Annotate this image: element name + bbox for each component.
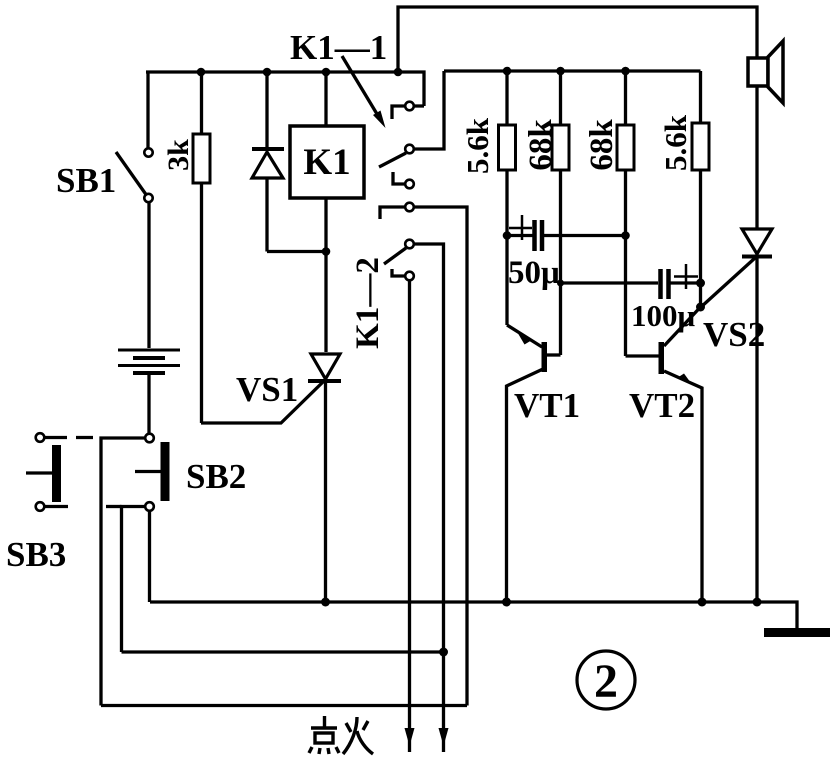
wire dashed SB3-SB2 bottom row — [44, 505, 122, 508]
wire SB1 to battery — [147, 202, 150, 348]
arrow ignition 1 — [405, 728, 415, 746]
wire c2 common — [414, 71, 444, 149]
svg-text:3k: 3k — [162, 139, 195, 171]
wire top supply run — [398, 7, 757, 72]
svg-text:K1: K1 — [303, 142, 350, 183]
svg-text:5.6k: 5.6k — [658, 114, 693, 171]
wire resistor rail y=71 — [444, 69, 701, 72]
node rail-diode — [263, 68, 272, 77]
svg-text:SB2: SB2 — [186, 457, 246, 496]
svg-text:SB3: SB3 — [6, 535, 66, 574]
emitter VT1 — [507, 325, 542, 347]
switch SB1 — [116, 148, 153, 202]
wire SB2 bottom to left drop — [122, 507, 146, 653]
contact c4 — [405, 203, 414, 212]
svg-text:K1—2: K1—2 — [350, 257, 386, 349]
capacitor C2 100u — [561, 264, 701, 299]
node R4-VT2 — [696, 303, 705, 312]
svg-text:VT2: VT2 — [629, 386, 695, 425]
svg-text:5.6k: 5.6k — [460, 117, 495, 174]
lever K1-1 — [379, 153, 406, 167]
relay contact K1-2 — [380, 203, 467, 752]
capacitor C1 50u — [507, 215, 626, 251]
base wire VT1 — [547, 353, 561, 356]
wire SB2 bottom to ground rail — [148, 511, 151, 602]
speaker BL — [748, 41, 783, 228]
thyristor VS2 — [701, 229, 772, 602]
hanzi huo — [346, 723, 351, 732]
resistor 3k — [193, 72, 210, 423]
node rail-R3 — [621, 67, 630, 76]
relay contact K1-1 — [379, 71, 444, 188]
node rail-R1 — [503, 67, 512, 76]
node rail-K1 — [322, 68, 331, 77]
wire c4 right — [414, 207, 467, 706]
svg-text:68k: 68k — [584, 119, 620, 171]
node y=652 — [439, 648, 448, 657]
pushbutton SB2 — [135, 434, 170, 511]
wire battery to SB2 — [147, 375, 150, 433]
contact c5 — [405, 240, 414, 249]
base bar VT2 — [659, 342, 665, 374]
ground — [764, 628, 830, 637]
hanzi dian — [323, 716, 326, 728]
arrow K1-1 pointer — [342, 56, 386, 128]
node rail-VT1 — [502, 598, 511, 607]
node rail-VS2 — [753, 598, 762, 607]
battery GB — [118, 350, 180, 373]
base wire VT2 — [626, 354, 660, 357]
svg-text:100μ: 100μ — [631, 298, 696, 333]
transistor VT1 — [507, 325, 561, 602]
wire c6 down — [408, 280, 411, 752]
resistor R3 68k — [617, 71, 634, 356]
wire c1 to rail — [414, 104, 424, 107]
gate wire VS2 — [701, 258, 755, 307]
emitter VT2 — [664, 371, 702, 602]
diode VD — [252, 72, 284, 252]
node C1-R1 — [503, 231, 512, 240]
contact c6 hook — [392, 269, 405, 276]
base bar VT1 — [542, 342, 548, 372]
wire SB2 top to left drop — [101, 438, 146, 706]
contact c6 — [405, 272, 414, 281]
svg-text:68k: 68k — [523, 119, 559, 171]
node rail-VT2 — [698, 598, 707, 607]
resistor R1 5.6k — [499, 71, 516, 325]
contact c3 — [405, 180, 414, 189]
node rail-R2 — [556, 67, 565, 76]
svg-text:2: 2 — [594, 655, 618, 708]
contact c1 hook — [392, 106, 405, 119]
wire diode to K1 bottom — [267, 250, 326, 253]
gate wire VS1 — [201, 380, 325, 423]
svg-text:SB1: SB1 — [56, 161, 116, 200]
node rail-3k — [197, 68, 206, 77]
svg-text:VT1: VT1 — [514, 386, 580, 425]
resistor R4 5.6k — [692, 71, 709, 307]
collector VT1 — [507, 369, 544, 602]
wire c5 common — [414, 244, 444, 752]
pushbutton SB3 — [26, 433, 61, 511]
wire dashed SB3-SB2 top row — [44, 436, 93, 439]
node rail-top — [394, 68, 403, 77]
node C2-R2 — [557, 280, 564, 287]
wire ground rail — [150, 602, 797, 628]
resistor R2 68k — [552, 71, 569, 355]
collector VT2 — [664, 307, 701, 346]
node C1-R3 — [621, 231, 630, 240]
wire left rail y=72 — [146, 72, 424, 106]
arrow ignition 2 — [439, 728, 449, 746]
contact c2 — [405, 145, 414, 154]
node diode-K1 — [322, 247, 331, 256]
wire SB1 drop — [146, 72, 149, 149]
node rail-VS1 — [321, 598, 330, 607]
wire y=705 run — [101, 704, 467, 707]
svg-text:50μ: 50μ — [508, 255, 560, 291]
figure number 2 — [577, 651, 635, 709]
contact c3 hook — [393, 172, 405, 184]
svg-text:K1—1: K1—1 — [290, 28, 387, 67]
svg-text:VS2: VS2 — [703, 315, 765, 354]
label dianhuo (ignition) — [309, 716, 373, 754]
contact c4 stub — [380, 207, 405, 219]
node C2-R4 — [696, 279, 705, 288]
contact c1 — [405, 102, 414, 111]
svg-text:VS1: VS1 — [236, 370, 298, 409]
relay coil K1 — [290, 72, 364, 352]
wire y=652 run — [122, 650, 444, 653]
thyristor VS1 — [201, 354, 341, 602]
lever K1-2 — [384, 248, 406, 264]
transistor VT2 — [626, 307, 703, 602]
